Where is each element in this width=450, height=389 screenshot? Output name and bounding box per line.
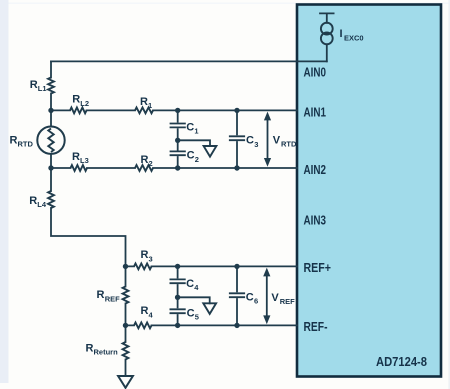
IC U1 AD7124-8 body [297,5,441,377]
svg-text:C: C [186,278,194,290]
capacitor C6 [230,266,244,325]
svg-text:I: I [340,28,343,40]
svg-text:L4: L4 [37,200,47,209]
capacitor C4 [170,266,184,297]
resistor R3 [134,264,152,270]
node REF+/C4 junction [175,264,180,269]
wire left column AIN0 to RL1 [50,61,52,77]
svg-text:RTD: RTD [281,140,297,149]
wire midpoint to ground 2 [178,297,210,303]
wire RTD to AIN2 node [50,154,52,168]
label R4 [141,305,154,319]
svg-text:REF: REF [105,294,120,303]
svg-text:R: R [30,79,38,91]
label RL1 [30,79,47,93]
resistor RL3 [71,165,88,171]
resistor RReturn [123,325,129,376]
svg-text:AIN2: AIN2 [304,163,327,177]
wire REF+ row [126,265,298,267]
wire AIN0 net (left column top to AIN0 pin and IEXC0) [51,60,327,62]
RTD sensor RRTD [37,127,64,154]
svg-text:R: R [140,96,148,108]
node REF- left junction [123,323,128,328]
label VREF [271,292,295,306]
svg-text:R: R [10,135,18,147]
capacitor C1 [171,110,185,140]
VREF measurement arrow [263,268,270,325]
svg-text:REF+: REF+ [304,261,332,275]
svg-text:AD7124-8: AD7124-8 [376,355,427,369]
wire AIN2 row [51,167,297,169]
svg-text:EXC0: EXC0 [344,33,364,42]
current source IEXC0 [320,13,334,61]
node AIN1/C3 junction [234,108,239,113]
ground 3 (bottom) [118,376,133,388]
wire midpoint to ground 1 [178,140,210,146]
svg-text:V: V [273,135,281,147]
svg-text:C: C [246,135,254,147]
node REF+/C6 junction [234,264,239,269]
VRTD measurement arrow [264,112,271,167]
label RL2 [72,94,89,108]
svg-text:R: R [141,249,149,261]
resistor RL2 [70,108,87,114]
svg-text:R: R [141,154,149,166]
label RL4 [29,195,47,209]
label R2 [141,154,153,168]
resistor R2 [135,165,153,171]
label RRTD [10,135,34,149]
label C4 [186,278,199,292]
svg-text:3: 3 [149,254,153,263]
svg-text:6: 6 [254,297,258,306]
svg-text:5: 5 [195,313,199,322]
capacitor C3 [230,110,244,168]
resistor RL4 [48,191,54,208]
wire AIN1 node to RTD [50,110,52,126]
ground 1 [204,146,217,157]
label RL3 [72,151,89,165]
resistor RL1 [48,78,54,94]
svg-text:1: 1 [194,127,198,136]
svg-text:R: R [141,305,149,317]
svg-text:R: R [97,289,105,301]
node AIN2/C3 junction [234,165,239,170]
label C1 [186,121,198,135]
label C2 [187,150,199,164]
label C5 [187,307,199,321]
node C4/C5 midpoint [175,295,180,300]
svg-text:RTD: RTD [18,140,34,149]
svg-text:L1: L1 [38,84,47,93]
label R3 [141,249,153,263]
node AIN1/C1 junction [175,108,180,113]
svg-text:L2: L2 [80,99,89,108]
svg-text:C: C [246,291,254,303]
resistor R1 [135,108,153,114]
svg-text:REF-: REF- [304,320,328,334]
svg-text:REF: REF [280,297,295,306]
svg-text:2: 2 [195,155,199,164]
node AIN2/C2 junction [175,165,180,170]
node REF-/C6 junction [234,323,239,328]
label VRTD [273,135,297,149]
wire REF- row [126,324,298,326]
svg-text:AIN3: AIN3 [304,214,327,228]
wire RL1 to AIN1 node [50,94,52,111]
svg-text:R: R [86,343,94,355]
label RREF [97,289,121,303]
svg-text:C: C [187,150,195,162]
svg-text:R: R [72,151,80,163]
node C1/C2 midpoint [175,138,180,143]
svg-text:L3: L3 [80,156,89,165]
label C3 [246,135,258,149]
svg-text:AIN0: AIN0 [304,66,327,80]
svg-text:V: V [271,292,279,304]
resistor RREF [123,266,129,325]
wire AIN2 node to RL4 [50,168,52,191]
svg-text:C: C [186,121,194,133]
node REF+ left junction [123,264,128,269]
label R1 [140,96,152,110]
svg-text:R: R [72,94,80,106]
resistor R4 [134,323,152,329]
svg-text:3: 3 [254,140,258,149]
node AIN2 left junction [48,165,53,170]
wire RL4 elbow to REF+ node [51,208,126,266]
capacitor C2 [171,140,185,168]
svg-text:1: 1 [148,101,152,110]
ground 2 [203,303,216,314]
label C6 [246,291,258,305]
capacitor C5 [170,297,184,325]
wire AIN1 row [51,109,297,111]
node AIN1 left junction [48,108,53,113]
node REF-/C5 junction [175,323,180,328]
svg-text:AIN1: AIN1 [304,106,327,120]
svg-text:C: C [187,307,195,319]
svg-text:2: 2 [149,159,153,168]
svg-text:R: R [29,195,37,207]
svg-text:Return: Return [94,348,119,357]
label RReturn [86,343,119,357]
label IEXC0 [340,28,364,42]
